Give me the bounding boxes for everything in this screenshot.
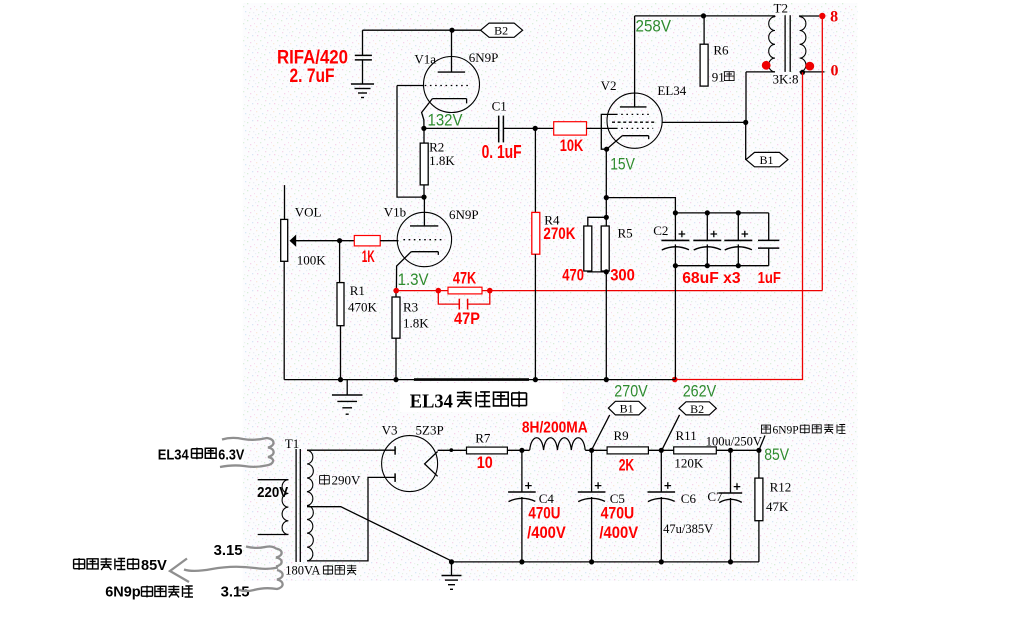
wire: R7 to choke bbox=[507, 448, 529, 453]
pentode V2 EL34 envelope bbox=[607, 93, 662, 148]
svg-text:VOL: VOL bbox=[295, 205, 322, 220]
svg-text:T1: T1 bbox=[285, 436, 299, 451]
label 85V bbox=[764, 445, 789, 464]
V2 grid1 bbox=[616, 127, 653, 129]
svg-text:5Z3P: 5Z3P bbox=[416, 423, 444, 438]
resistor R1 470K bbox=[337, 241, 344, 380]
svg-text:EL34: EL34 bbox=[657, 83, 686, 98]
node: secondary 0 / ground bbox=[800, 63, 839, 80]
wire: V1a grid to V1b plate bbox=[397, 86, 424, 198]
R6 labels bbox=[712, 43, 734, 85]
transformer T1 core bbox=[296, 449, 300, 562]
svg-text:85V: 85V bbox=[764, 445, 789, 464]
wire: HV top to V3 plate bbox=[307, 449, 395, 451]
svg-text:220V: 220V bbox=[257, 484, 288, 501]
capacitor C2a 68uF bbox=[661, 213, 689, 266]
label 180VA bbox=[285, 564, 356, 578]
T1 secondary HV winding bbox=[307, 450, 313, 561]
VOL labels bbox=[295, 205, 327, 268]
svg-text:100u/250V: 100u/250V bbox=[706, 434, 762, 448]
svg-text:47u/385V: 47u/385V bbox=[663, 522, 713, 536]
svg-text:3K:8: 3K:8 bbox=[773, 72, 799, 87]
svg-text:6N9p: 6N9p bbox=[105, 585, 141, 601]
label 3.15 (top) bbox=[214, 543, 243, 559]
svg-text:47K: 47K bbox=[453, 269, 477, 288]
label 3.15 (bottom) bbox=[221, 585, 250, 601]
title EL34 SE circuit bbox=[400, 383, 562, 413]
wire: ground bus (top section) bbox=[284, 379, 675, 381]
node: V1b plate / R2 junction bbox=[421, 195, 426, 200]
V2 cathode bbox=[607, 136, 649, 150]
label 270V bbox=[614, 382, 648, 401]
svg-text:68uF x3: 68uF x3 bbox=[682, 270, 740, 287]
label 258V bbox=[636, 16, 672, 35]
C4 labels bbox=[527, 491, 566, 542]
VOL wiper arrow bbox=[290, 235, 355, 247]
svg-text:91: 91 bbox=[712, 69, 725, 84]
V1a plate bbox=[438, 30, 465, 72]
capacitor RIFA 2.7uF bbox=[355, 30, 372, 84]
wire: V2 g2 to OPT/B1 bbox=[662, 121, 746, 123]
resistor R12 47K bbox=[755, 450, 763, 562]
R5 labels bbox=[562, 226, 635, 285]
capacitor C2c 68uF bbox=[724, 213, 752, 266]
wire: V3 output bbox=[438, 448, 467, 452]
V1b labels bbox=[384, 205, 479, 223]
resistor R3 1.8K bbox=[392, 291, 400, 380]
label 100u/250V bbox=[706, 434, 762, 448]
transformer T2 primary bbox=[746, 16, 775, 123]
svg-text:C2: C2 bbox=[653, 223, 668, 238]
node: 132V (V1a cathode) bbox=[421, 126, 426, 131]
wire: to C2 bank bbox=[606, 198, 675, 213]
V2 plate bbox=[620, 16, 647, 107]
svg-text:290V: 290V bbox=[332, 473, 362, 488]
triode V1a envelope bbox=[424, 57, 480, 113]
rectifier V3 5Z3P envelope bbox=[382, 436, 438, 492]
nodes on ground bus bbox=[338, 377, 609, 382]
ground (top section) bbox=[332, 380, 363, 415]
R2 labels bbox=[429, 139, 455, 167]
svg-text:258V: 258V bbox=[636, 16, 672, 35]
V1b plate bbox=[410, 197, 438, 226]
V3 cathode arrow bbox=[425, 452, 438, 477]
T2 core bbox=[785, 15, 790, 72]
svg-text:0. 1uF: 0. 1uF bbox=[482, 142, 522, 162]
capacitor 1uF film bbox=[758, 213, 779, 266]
label 262V bbox=[683, 382, 717, 401]
node: split to C2 bbox=[604, 195, 609, 200]
svg-text:1.3V: 1.3V bbox=[398, 270, 430, 289]
svg-text:1.8K: 1.8K bbox=[429, 153, 455, 168]
resistor 47K (feedback) bbox=[448, 269, 482, 294]
wire: 1K to V1b grid bbox=[380, 240, 398, 242]
svg-text:100K: 100K bbox=[297, 253, 327, 268]
label 220V bbox=[257, 484, 288, 501]
squiggle: EL34 heater winding bbox=[220, 438, 274, 467]
label heater tap note bbox=[759, 424, 846, 450]
svg-text:262V: 262V bbox=[683, 382, 717, 401]
V1b cathode bbox=[396, 252, 438, 291]
capacitor C4 470U/400V bbox=[508, 450, 536, 562]
svg-text:R1: R1 bbox=[350, 283, 365, 298]
svg-text:8H/200MA: 8H/200MA bbox=[522, 419, 588, 436]
capacitor C6 47u/385V bbox=[648, 450, 676, 562]
svg-text:470U: 470U bbox=[601, 504, 635, 523]
svg-text:6N9P: 6N9P bbox=[469, 50, 499, 65]
wire: red 8-terminal to feedback bbox=[821, 16, 823, 291]
ground (RIFA cap) bbox=[351, 84, 374, 98]
svg-text:270V: 270V bbox=[614, 382, 648, 401]
choke 8H/200MA bbox=[530, 438, 586, 450]
capacitor C2b 68uF bbox=[693, 213, 721, 266]
node: wiper/R1 junction bbox=[337, 238, 342, 243]
svg-text:300: 300 bbox=[610, 266, 635, 285]
resistor R9 2K bbox=[607, 428, 648, 475]
V3 plates bbox=[394, 446, 396, 482]
node: R6 top bbox=[701, 13, 706, 18]
svg-text:3.15: 3.15 bbox=[221, 585, 250, 601]
wire: red 0-terminal to ground bus bbox=[675, 72, 803, 379]
svg-text:180VA: 180VA bbox=[285, 564, 320, 578]
label EL34 heater 6.3V bbox=[158, 448, 245, 464]
svg-text:1uF: 1uF bbox=[758, 270, 781, 287]
nodes on feedback line bbox=[393, 288, 492, 294]
T1 primary 220V winding bbox=[258, 480, 289, 535]
node: red/ground-bus junction bbox=[672, 377, 678, 383]
squiggle: heater windings + center tap arrow bbox=[170, 547, 283, 592]
capacitor 47P (feedback) bbox=[438, 291, 490, 328]
T1 label bbox=[285, 436, 299, 451]
svg-text:6N9P: 6N9P bbox=[449, 207, 479, 222]
resistor R7 10 bbox=[467, 431, 508, 472]
wire: 15V node down bbox=[605, 149, 607, 197]
wire: bottom ground bus bbox=[452, 561, 759, 563]
svg-text:8: 8 bbox=[830, 9, 838, 26]
wire: C1 to 10K bbox=[503, 127, 553, 129]
V1a cathode bbox=[422, 99, 467, 129]
svg-text:120K: 120K bbox=[674, 456, 704, 471]
T2 polarity dots bbox=[762, 61, 814, 71]
svg-text:EL34: EL34 bbox=[410, 391, 453, 413]
svg-text:1K: 1K bbox=[362, 247, 375, 266]
svg-text:/400V: /400V bbox=[527, 523, 566, 542]
svg-text:B1: B1 bbox=[620, 402, 634, 416]
V1a grid bbox=[397, 85, 471, 87]
svg-text:R12: R12 bbox=[770, 480, 792, 495]
svg-text:270K: 270K bbox=[543, 224, 576, 243]
svg-text:470: 470 bbox=[562, 266, 584, 285]
svg-text:10: 10 bbox=[477, 453, 493, 472]
svg-text:3.15: 3.15 bbox=[214, 543, 243, 559]
choke label bbox=[522, 419, 588, 436]
svg-text:R5: R5 bbox=[618, 226, 633, 241]
svg-text:470K: 470K bbox=[348, 299, 378, 314]
svg-text:B2: B2 bbox=[494, 24, 508, 38]
R3 labels bbox=[403, 299, 429, 330]
wire: HV center tap to ground bbox=[307, 507, 452, 561]
svg-text:2K: 2K bbox=[619, 456, 635, 475]
potentiometer VOL 100K bbox=[281, 185, 288, 380]
tag B2 (bottom) bbox=[662, 402, 716, 450]
label center tap 85V bbox=[74, 558, 168, 574]
label RIFA/420 2.7uF bbox=[277, 48, 348, 88]
svg-text:EL34: EL34 bbox=[158, 448, 189, 464]
C6 labels bbox=[663, 491, 713, 536]
V2 grid2 bbox=[612, 121, 656, 123]
node: V1a plate / B2 junction bbox=[449, 28, 454, 33]
svg-text:6N9P: 6N9P bbox=[773, 425, 799, 437]
T2 labels bbox=[773, 0, 799, 86]
label 6N9p heater supply bbox=[105, 585, 193, 601]
V1b grid bbox=[403, 239, 443, 241]
V3 labels bbox=[382, 423, 444, 438]
V2 grid3 + tie to cathode bbox=[601, 114, 650, 149]
resistor R11 120K bbox=[674, 428, 717, 471]
label 290V doubled bbox=[320, 473, 361, 488]
wire: down to B1 tag bbox=[745, 122, 747, 160]
wire: R9 to R11 bbox=[648, 448, 673, 453]
svg-text:132V: 132V bbox=[428, 111, 464, 130]
wire: R11 to R12 bbox=[716, 448, 761, 453]
svg-text:47K: 47K bbox=[766, 499, 789, 514]
svg-text:V2: V2 bbox=[601, 78, 617, 93]
tag B2 (top) bbox=[481, 23, 523, 38]
tag B1 (near T2) bbox=[746, 152, 788, 167]
svg-text:C1: C1 bbox=[492, 99, 507, 114]
C1 labels bbox=[482, 99, 522, 162]
svg-text:T2: T2 bbox=[774, 0, 788, 15]
svg-text:C7: C7 bbox=[707, 489, 723, 504]
svg-text:B2: B2 bbox=[690, 402, 704, 416]
svg-text:V1b: V1b bbox=[384, 205, 406, 220]
wire: 132V node to C1 bbox=[424, 127, 499, 129]
resistor 10K (grid stopper) bbox=[554, 122, 587, 155]
svg-text:2. 7uF: 2. 7uF bbox=[290, 66, 335, 87]
nodes on bottom bus bbox=[449, 559, 733, 564]
svg-text:R11: R11 bbox=[676, 428, 697, 443]
ground (bottom) bbox=[442, 562, 462, 589]
svg-text:R9: R9 bbox=[614, 428, 629, 443]
svg-text:V1a: V1a bbox=[414, 51, 436, 66]
svg-text:V3: V3 bbox=[382, 423, 398, 438]
resistor R2 1.8K bbox=[420, 128, 428, 197]
C2 bottom bus bbox=[673, 263, 769, 379]
node: B1/OPT junction bbox=[743, 120, 748, 125]
node: C1/R4 junction bbox=[533, 126, 538, 131]
R1 labels bbox=[348, 283, 378, 314]
capacitor C7 100u/250V bbox=[719, 450, 742, 562]
svg-text:R3: R3 bbox=[403, 299, 418, 314]
label 132V bbox=[428, 111, 464, 130]
wire: plate rail 258V bbox=[635, 15, 775, 17]
resistor R5 (470||300) bbox=[584, 217, 609, 379]
wire: B2 rail top-left bbox=[363, 29, 481, 31]
capacitor bank C2 top bus bbox=[673, 210, 769, 215]
resistor R6 91ohm bbox=[700, 16, 708, 86]
svg-text:470U: 470U bbox=[528, 504, 560, 523]
node: V2 cathode 15V bbox=[604, 147, 609, 152]
capacitor C1 0.1uF bbox=[499, 116, 504, 143]
wire: HV bottom to V3 plate2 bbox=[307, 477, 395, 561]
label 15V bbox=[610, 154, 635, 173]
svg-text:R7: R7 bbox=[475, 431, 491, 446]
resistor R4 270K bbox=[532, 128, 540, 379]
transformer T2 secondary bbox=[800, 16, 825, 72]
wire: feedback line (red) bbox=[396, 290, 822, 292]
wire: choke to R9 bbox=[585, 448, 607, 453]
triode V1b envelope bbox=[397, 212, 451, 266]
tag B1 (bottom) bbox=[592, 401, 646, 449]
svg-text:85V: 85V bbox=[141, 558, 167, 574]
capacitor C5 470U/400V bbox=[578, 450, 606, 562]
R12 labels bbox=[766, 480, 791, 514]
V2 labels bbox=[601, 78, 687, 98]
svg-text:10K: 10K bbox=[560, 136, 584, 155]
C2 labels bbox=[653, 223, 781, 287]
R4 labels bbox=[543, 213, 576, 244]
svg-text:B1: B1 bbox=[759, 153, 773, 167]
svg-text:C6: C6 bbox=[681, 491, 697, 506]
V1a label bbox=[414, 50, 498, 66]
wire: 10K to V2 grid bbox=[587, 127, 617, 129]
svg-text:R6: R6 bbox=[713, 43, 729, 58]
C7 label bbox=[707, 489, 723, 504]
terminal 8 bbox=[819, 9, 838, 26]
svg-text:47P: 47P bbox=[454, 309, 480, 328]
svg-text:1.8K: 1.8K bbox=[403, 315, 429, 330]
resistor 1K (grid) bbox=[354, 236, 380, 267]
svg-text:0: 0 bbox=[831, 63, 839, 80]
label 1.3V bbox=[398, 270, 430, 289]
svg-text:6.3V: 6.3V bbox=[218, 448, 244, 464]
svg-text:/400V: /400V bbox=[599, 523, 638, 542]
C5 labels bbox=[599, 491, 638, 542]
wire: down to R5 bbox=[604, 198, 609, 220]
svg-text:15V: 15V bbox=[610, 154, 635, 173]
